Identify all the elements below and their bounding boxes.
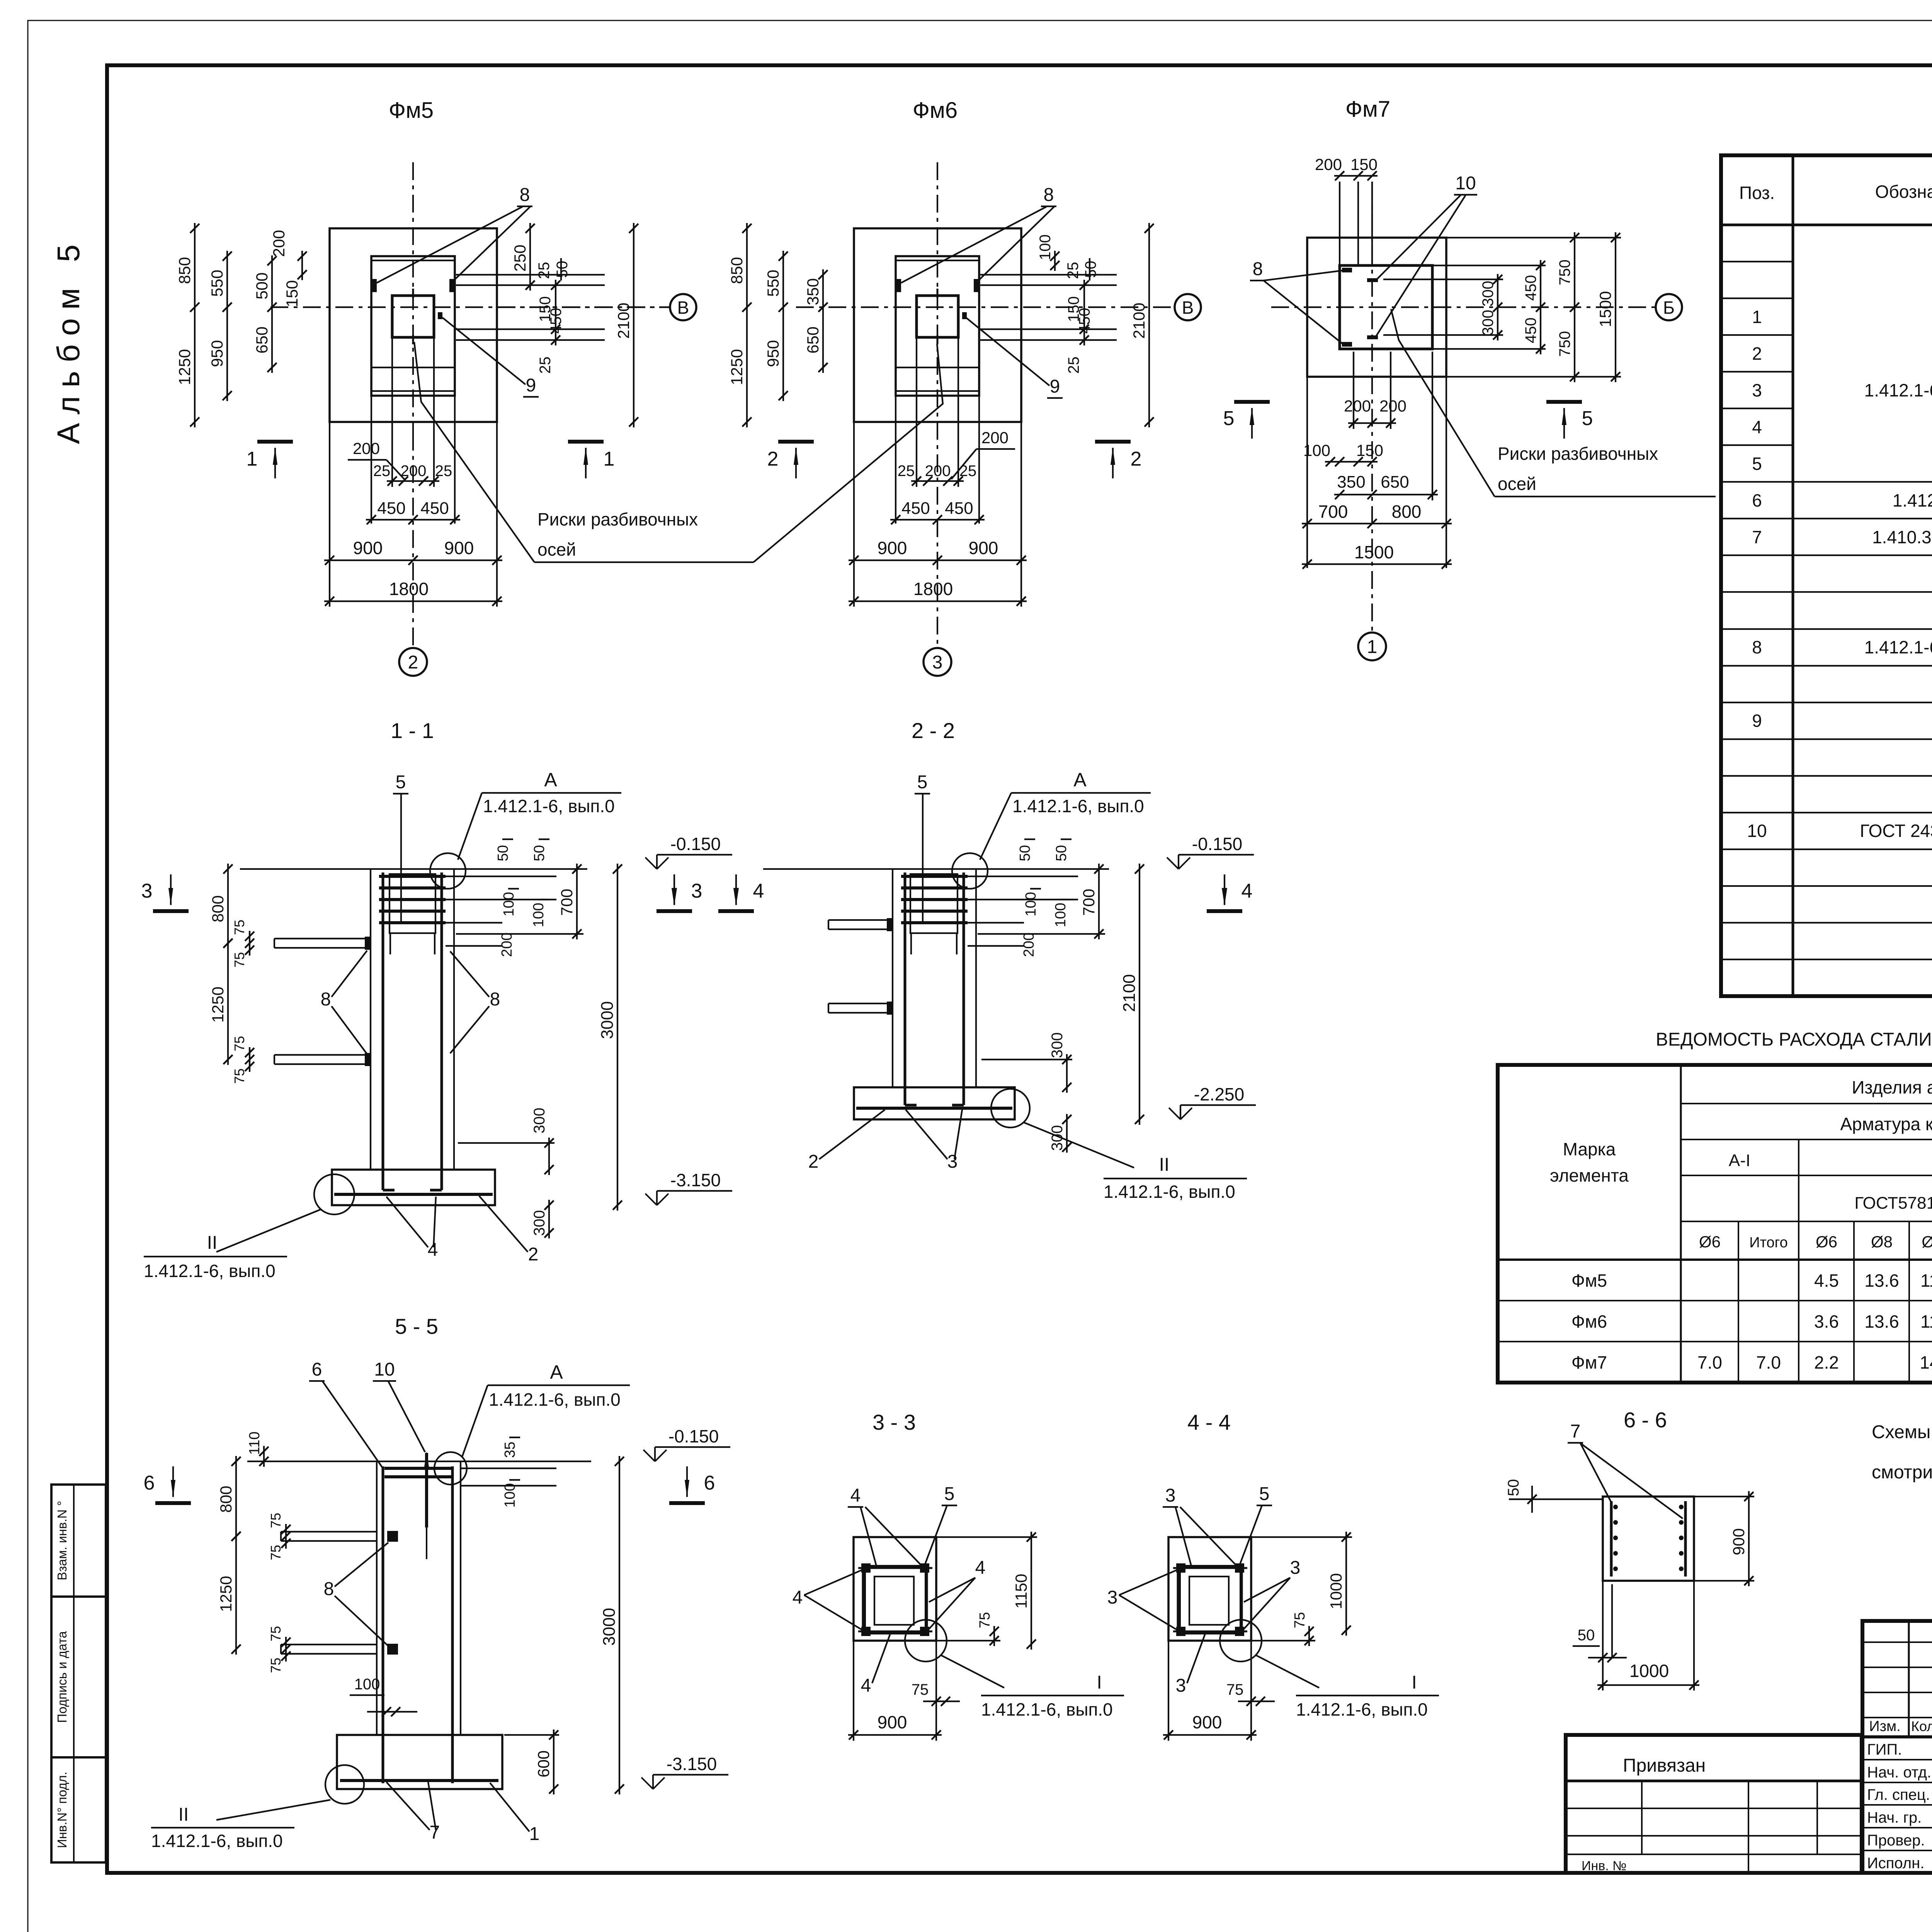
section 2-2 level -2.250	[1180, 1105, 1181, 1119]
svg-text:25: 25	[435, 463, 452, 480]
svg-text:Риски разбивочных: Риски разбивочных	[537, 509, 698, 529]
svg-text:600: 600	[534, 1750, 553, 1777]
plan Fm7 right dims 450/450	[1540, 260, 1541, 354]
svg-text:4: 4	[975, 1558, 986, 1578]
svg-text:4: 4	[861, 1675, 871, 1696]
svg-text:7.0: 7.0	[1697, 1352, 1722, 1372]
svg-text:1.412.1-6, вып.0: 1.412.1-6, вып.0	[981, 1699, 1113, 1719]
svg-text:8: 8	[321, 989, 331, 1010]
svg-text:5: 5	[944, 1484, 955, 1504]
svg-text:А-I: А-I	[1729, 1151, 1750, 1170]
section 6-6 rebar right	[1684, 1501, 1687, 1577]
plan Fm7 top dims 200 150	[1334, 175, 1378, 177]
svg-text:75: 75	[268, 1658, 284, 1673]
plan Fm6 dim 350/650	[822, 269, 824, 373]
svg-text:II: II	[179, 1804, 189, 1825]
plan Fm6 angle detail 9	[962, 312, 967, 319]
svg-text:2100: 2100	[614, 303, 633, 338]
svg-text:Ø6: Ø6	[1816, 1233, 1837, 1251]
svg-text:1.412.1-6, вып.0: 1.412.1-6, вып.0	[1296, 1699, 1428, 1719]
section 2-2 dim 300 upper	[1066, 1054, 1068, 1093]
section 1-1 dim 3000	[617, 864, 618, 1211]
svg-text:25: 25	[537, 357, 554, 374]
svg-text:Б: Б	[1663, 298, 1675, 318]
svg-text:700: 700	[1318, 502, 1348, 522]
plan Fm6 pedestal	[896, 256, 979, 396]
svg-text:8: 8	[520, 185, 530, 205]
plan Fm5 dim 200/150 top-left	[301, 251, 303, 280]
plan Fm6 axis vertical	[937, 162, 938, 648]
svg-text:1: 1	[1367, 637, 1378, 657]
section 1-1 footing	[332, 1170, 495, 1205]
section 3-3 dim 75 right	[993, 1626, 995, 1646]
svg-text:Фм6: Фм6	[1571, 1311, 1607, 1332]
svg-text:7: 7	[1570, 1421, 1581, 1442]
plan Fm7 axis circle B	[1656, 294, 1682, 320]
svg-text:Фм6: Фм6	[913, 98, 957, 123]
svg-text:3: 3	[1290, 1558, 1301, 1578]
plan Fm5 axis vertical	[412, 162, 414, 433]
svg-text:Марка: Марка	[1563, 1139, 1616, 1159]
svg-text:1.412.1-6, вып.0: 1.412.1-6, вып.0	[489, 1389, 621, 1410]
svg-text:1.412.1-6, вып.0: 1.412.1-6, вып.0	[1012, 796, 1144, 816]
svg-text:50: 50	[1017, 845, 1033, 861]
section 1-1 top meshes	[379, 875, 446, 878]
svg-text:1.412.1-6, вып.2: 1.412.1-6, вып.2	[1864, 637, 1932, 657]
svg-text:450: 450	[420, 499, 449, 518]
svg-text:8: 8	[1253, 259, 1263, 279]
section 5-5 dim 800	[235, 1456, 237, 1542]
svg-text:450: 450	[1522, 318, 1539, 344]
svg-text:Схемы нормативных нагрузок: Схемы нормативных нагрузок на фундаменты…	[1872, 1422, 1932, 1442]
svg-text:II: II	[207, 1233, 218, 1253]
section 6-6 dim 900	[1748, 1491, 1750, 1586]
svg-text:450: 450	[1522, 275, 1539, 301]
svg-text:6: 6	[312, 1359, 322, 1380]
svg-text:осей: осей	[537, 539, 576, 560]
section 2-2 footing	[854, 1087, 1015, 1119]
svg-text:75: 75	[231, 952, 247, 968]
section 2-2 column outline	[892, 869, 893, 1087]
svg-text:200: 200	[1021, 932, 1037, 957]
svg-text:100: 100	[354, 1676, 380, 1693]
svg-text:3: 3	[947, 1151, 958, 1172]
svg-text:25: 25	[959, 463, 977, 480]
svg-text:1: 1	[604, 448, 615, 470]
svg-text:650: 650	[804, 327, 822, 354]
steel table horizontals	[1681, 1103, 1932, 1104]
svg-text:элемента: элемента	[1550, 1165, 1629, 1185]
section 5-5 level -0.150	[654, 1447, 656, 1461]
svg-text:800: 800	[1392, 502, 1422, 522]
section 4-4 dim vertical	[1345, 1532, 1347, 1636]
svg-text:Взам. инв.N °: Взам. инв.N °	[55, 1501, 69, 1580]
plan Fm7 bottom dims 350 650	[1334, 494, 1438, 495]
section 1-1 detail circle A	[430, 853, 466, 889]
section 5-5 footing	[337, 1735, 502, 1789]
svg-text:Провер.: Провер.	[1867, 1832, 1925, 1849]
plan Fm6 footing outline	[854, 228, 1021, 422]
plan Fm6 embed flags	[896, 279, 901, 292]
section 1-1 level -0.150	[656, 855, 658, 869]
svg-text:900: 900	[353, 538, 383, 558]
privyazan block	[1566, 1735, 1862, 1873]
svg-text:150: 150	[1356, 441, 1383, 459]
svg-text:350: 350	[1337, 473, 1365, 492]
svg-text:50: 50	[1082, 261, 1099, 278]
svg-text:100: 100	[1037, 235, 1054, 260]
section 2-2 dim 700	[1098, 864, 1100, 939]
svg-text:10: 10	[1455, 173, 1476, 194]
svg-text:2.2: 2.2	[1814, 1352, 1839, 1372]
svg-text:Поз.: Поз.	[1739, 183, 1775, 203]
svg-text:3: 3	[1165, 1485, 1176, 1506]
svg-text:350: 350	[804, 278, 822, 305]
svg-text:300: 300	[1049, 1032, 1066, 1058]
svg-text:осей: осей	[1498, 474, 1536, 494]
svg-text:75: 75	[268, 1626, 284, 1641]
section 3-3 outer outline	[854, 1537, 936, 1641]
svg-text:1: 1	[1752, 307, 1762, 327]
svg-text:1250: 1250	[728, 349, 746, 385]
section 1-1 dims 75 75 upper	[249, 931, 250, 956]
section 2-2 footing mesh	[856, 1107, 1012, 1110]
plan Fm7 bottom dims 200 200	[1348, 422, 1396, 424]
plan Fm7 bolt marks 10	[1367, 278, 1378, 282]
svg-text:3: 3	[1107, 1587, 1118, 1608]
svg-text:25: 25	[1065, 357, 1082, 374]
plan Fm6 dim 100 right	[1054, 251, 1056, 271]
svg-text:5: 5	[396, 772, 406, 793]
svg-text:100: 100	[1053, 903, 1069, 927]
svg-text:Фм5: Фм5	[1571, 1270, 1607, 1291]
section 3-3 bar lines	[858, 1567, 932, 1569]
svg-text:950: 950	[208, 340, 226, 367]
svg-text:1150: 1150	[1012, 1574, 1030, 1609]
svg-text:3.6: 3.6	[1814, 1311, 1839, 1332]
svg-text:8: 8	[1752, 637, 1762, 657]
plan Fm7 axis vertical	[1371, 182, 1373, 634]
svg-text:II: II	[1159, 1155, 1170, 1175]
plan Fm7 column box	[1340, 265, 1432, 349]
plan Fm5 axis circle B	[497, 306, 670, 308]
section 5-5 dim 600	[553, 1730, 554, 1794]
section 4-4 dim 75 right	[1308, 1626, 1310, 1646]
svg-text:2100: 2100	[1130, 303, 1148, 338]
section 1-1 footing mesh	[334, 1193, 493, 1196]
section 4-4 bar lines	[1173, 1567, 1247, 1569]
svg-text:2: 2	[1752, 344, 1762, 364]
svg-text:250: 250	[511, 245, 529, 272]
svg-text:75: 75	[231, 1036, 247, 1051]
plan Fm6 section marks 2-2	[778, 440, 814, 444]
svg-text:800: 800	[209, 895, 227, 922]
svg-text:1 - 1: 1 - 1	[391, 718, 434, 743]
svg-text:Кол.уч: Кол.уч	[1911, 1718, 1932, 1734]
svg-text:800: 800	[217, 1486, 235, 1513]
svg-text:550: 550	[208, 270, 226, 297]
section 5-5 dims 75 75 upper	[285, 1524, 287, 1549]
svg-text:Фм5: Фм5	[389, 98, 434, 123]
svg-text:50: 50	[1053, 845, 1070, 861]
plan Fm6 axis horizontal	[796, 306, 1175, 308]
section 5-5 ground lines	[247, 1461, 377, 1462]
svg-text:6: 6	[704, 1472, 715, 1494]
svg-text:75: 75	[977, 1612, 993, 1628]
svg-text:3000: 3000	[600, 1608, 619, 1646]
svg-text:900: 900	[969, 538, 998, 558]
svg-text:2: 2	[1131, 448, 1142, 470]
svg-text:1000: 1000	[1629, 1661, 1669, 1681]
svg-text:4: 4	[753, 880, 764, 902]
svg-text:1800: 1800	[913, 579, 953, 599]
svg-text:Гл. спец.: Гл. спец.	[1867, 1786, 1930, 1803]
plan Fm6 dims 150/450/25 right	[1083, 280, 1085, 345]
svg-text:5: 5	[917, 772, 928, 793]
svg-text:14.4: 14.4	[1920, 1352, 1932, 1372]
section 3-3 corner bars	[861, 1563, 871, 1573]
svg-text:ГОСТ 24379.1-80: ГОСТ 24379.1-80	[1860, 821, 1932, 841]
svg-text:750: 750	[1556, 331, 1573, 357]
svg-text:Нач. отд.: Нач. отд.	[1867, 1764, 1931, 1781]
svg-text:6 - 6: 6 - 6	[1624, 1408, 1667, 1432]
svg-text:1000: 1000	[1327, 1573, 1345, 1609]
title block staff rows	[1862, 1759, 1932, 1760]
section 2-2 anchor bolts	[904, 872, 906, 1105]
section 1-1 mesh cage	[389, 874, 435, 933]
section 4-4 dim 75 bottom	[1247, 1697, 1256, 1706]
section 1-1 column outline	[370, 869, 371, 1170]
svg-text:75: 75	[268, 1545, 284, 1560]
svg-text:1.412.1-6, вып.0: 1.412.1-6, вып.0	[144, 1261, 276, 1281]
plan Fm6 bottom dims 450 450	[890, 519, 985, 520]
svg-text:Риски разбивочных: Риски разбивочных	[1498, 444, 1658, 464]
svg-text:25: 25	[536, 262, 553, 279]
svg-text:Подпись и дата: Подпись и дата	[55, 1631, 69, 1723]
svg-text:75: 75	[231, 920, 247, 935]
svg-text:5: 5	[1582, 407, 1593, 430]
svg-text:3: 3	[141, 880, 153, 902]
section 6-6 outline	[1603, 1497, 1694, 1581]
left margin stamp boxes	[51, 1485, 106, 1862]
section 2-2 embed channels	[828, 919, 893, 921]
plan Fm7 embed flags	[1342, 268, 1352, 272]
svg-text:450: 450	[548, 308, 565, 334]
svg-text:700: 700	[558, 889, 576, 916]
svg-text:300: 300	[1480, 310, 1497, 336]
svg-text:1500: 1500	[1354, 542, 1394, 562]
svg-text:А: А	[550, 1361, 563, 1383]
svg-text:1.410.3, вып.1: 1.410.3, вып.1	[1872, 527, 1932, 547]
svg-text:700: 700	[1080, 889, 1098, 916]
svg-text:А: А	[544, 769, 557, 791]
svg-text:750: 750	[1556, 260, 1573, 286]
svg-text:1.412.1-6, вып.2: 1.412.1-6, вып.2	[1864, 380, 1932, 400]
svg-text:Изм.: Изм.	[1869, 1718, 1900, 1735]
svg-text:-2.250: -2.250	[1194, 1084, 1244, 1104]
svg-text:75: 75	[231, 1068, 247, 1084]
section 2-2 level -0.150	[1178, 855, 1179, 869]
svg-text:I: I	[1097, 1672, 1102, 1693]
svg-text:Привязан: Привязан	[1623, 1755, 1706, 1776]
svg-text:В: В	[1182, 298, 1194, 318]
section 5-5 side marks 6 6	[155, 1501, 191, 1505]
svg-text:900: 900	[444, 538, 474, 558]
svg-text:3: 3	[932, 652, 943, 673]
svg-text:10: 10	[374, 1359, 395, 1380]
plan Fm7 right dims 750/750	[1574, 232, 1575, 382]
section 4-4 outer outline	[1168, 1537, 1251, 1641]
svg-text:Арматура класса: Арматура класса	[1840, 1114, 1932, 1134]
svg-text:900: 900	[878, 1712, 907, 1732]
svg-text:10: 10	[1747, 821, 1767, 841]
section 3-3 dim 900 bottom	[848, 1734, 942, 1736]
svg-text:Инв.N° подл.: Инв.N° подл.	[55, 1772, 69, 1848]
svg-text:850: 850	[175, 257, 194, 284]
svg-text:100: 100	[531, 903, 547, 927]
svg-text:3: 3	[1752, 380, 1762, 400]
section 5-5 column outline	[376, 1461, 378, 1735]
title block frame	[1862, 1621, 1932, 1873]
svg-text:900: 900	[878, 538, 907, 558]
svg-text:Альбом 5: Альбом 5	[51, 236, 86, 444]
svg-text:550: 550	[764, 270, 782, 297]
svg-text:1800: 1800	[389, 579, 429, 599]
plan Fm6 axis circle 3	[923, 648, 951, 676]
plan Fm5 pedestal	[371, 256, 455, 396]
section 5-5 dims 75 75 lower	[285, 1637, 287, 1662]
svg-text:4: 4	[1242, 880, 1253, 902]
svg-text:200: 200	[981, 429, 1009, 447]
plan Fm6 projection lines	[916, 337, 917, 487]
svg-text:11.9: 11.9	[1920, 1311, 1932, 1332]
svg-text:50: 50	[1578, 1627, 1595, 1644]
plan Fm5 angle detail 9	[438, 312, 442, 319]
svg-text:5 - 5: 5 - 5	[395, 1314, 438, 1338]
svg-text:650: 650	[1381, 473, 1409, 492]
section 5-5 dim 1250	[235, 1531, 237, 1655]
section 5-5 footing mesh	[340, 1779, 498, 1782]
svg-text:1.412.1-6, вып.0: 1.412.1-6, вып.0	[483, 796, 615, 816]
svg-text:50: 50	[495, 845, 511, 861]
section 6-6 rebar left	[1610, 1501, 1613, 1577]
svg-text:ГОСТ5781-82*: ГОСТ5781-82*	[1854, 1194, 1932, 1213]
section 4-4 detail circle I	[1220, 1620, 1262, 1662]
plan Fm5 dim 500/650	[271, 255, 273, 373]
svg-text:Итого: Итого	[1749, 1235, 1788, 1251]
svg-text:300: 300	[531, 1108, 548, 1134]
svg-text:3: 3	[691, 880, 702, 902]
section 5-5 central bolt 10	[425, 1453, 428, 1527]
svg-text:1500: 1500	[1596, 291, 1614, 327]
svg-text:7: 7	[1752, 527, 1762, 547]
section 1-1 dims 75 75 lower	[249, 1047, 250, 1072]
plan Fm6 bottom dims 25 200 25	[911, 480, 964, 482]
plan Fm5 section marks 1-1	[257, 440, 293, 444]
svg-text:50: 50	[1505, 1479, 1522, 1497]
section 1-1 dim 800	[227, 864, 229, 949]
svg-text:Ø8: Ø8	[1871, 1233, 1893, 1251]
svg-text:Ø6: Ø6	[1699, 1233, 1721, 1251]
svg-text:13.6: 13.6	[1864, 1270, 1899, 1291]
section 3-3 stirrup cage	[864, 1566, 926, 1633]
svg-text:100: 100	[502, 1483, 518, 1507]
section 1-1 dim 700	[576, 864, 578, 939]
plan Fm5 dims 150/450/25 right	[555, 280, 556, 345]
plan Fm5 dim 2100	[633, 223, 634, 427]
plan Fm7 footing outline	[1307, 238, 1446, 377]
plan Fm6 bottom dims 900 900	[849, 560, 1027, 561]
svg-text:-0.150: -0.150	[1192, 834, 1242, 854]
svg-text:11.9: 11.9	[1920, 1270, 1932, 1291]
plan Fm5 bottom dim 1800	[324, 600, 502, 602]
svg-text:8: 8	[1044, 185, 1054, 205]
svg-text:25: 25	[1065, 262, 1082, 279]
svg-text:4: 4	[428, 1240, 438, 1260]
plan Fm5 dim 250 right	[529, 223, 531, 291]
section 5-5 dim 3000	[619, 1456, 620, 1794]
svg-text:1: 1	[247, 448, 258, 470]
plan Fm5 axis horizontal	[270, 306, 670, 308]
section 3-3 dim vertical	[1031, 1532, 1032, 1650]
section 5-5 level -3.150	[652, 1775, 654, 1789]
svg-text:8: 8	[490, 989, 500, 1010]
svg-text:450: 450	[945, 499, 973, 518]
svg-text:3 - 3: 3 - 3	[872, 1410, 916, 1434]
svg-text:I: I	[1412, 1672, 1417, 1693]
svg-text:35: 35	[502, 1442, 518, 1458]
svg-text:5: 5	[1752, 454, 1762, 474]
svg-text:300: 300	[1480, 281, 1497, 307]
svg-text:9: 9	[1752, 711, 1762, 731]
svg-text:1: 1	[529, 1824, 540, 1844]
section 1-1 level -3.150	[656, 1191, 658, 1205]
svg-text:450: 450	[1076, 308, 1093, 334]
svg-text:4.5: 4.5	[1814, 1270, 1839, 1291]
section 1-1 anchor bolts	[382, 872, 384, 1190]
plan Fm5 bottom dims 900 900	[324, 560, 502, 561]
svg-text:850: 850	[728, 257, 746, 284]
section 1-1 side marks 3 3	[153, 909, 189, 913]
svg-text:75: 75	[268, 1513, 284, 1528]
plan Fm6 bottom dim 1800	[849, 600, 1027, 602]
svg-text:75: 75	[912, 1681, 929, 1698]
svg-text:2: 2	[767, 448, 779, 470]
svg-text:1.412.1-4: 1.412.1-4	[1893, 490, 1932, 510]
plan Fm6 dim 2100	[1148, 223, 1150, 427]
section 3-3 detail circle I	[905, 1620, 947, 1662]
svg-text:8: 8	[324, 1579, 334, 1599]
svg-text:75: 75	[1226, 1681, 1244, 1698]
svg-text:200: 200	[270, 230, 288, 257]
plan Fm6 axis circle B	[1175, 294, 1201, 320]
plan Fm7 axis horizontal	[1271, 306, 1656, 308]
svg-text:6: 6	[144, 1472, 155, 1494]
section 5-5 embed flag squares	[387, 1531, 398, 1542]
svg-text:500: 500	[253, 272, 271, 299]
section 2-2 dim 300 lower	[1066, 1114, 1068, 1153]
plan Fm5 projection lines right	[456, 274, 605, 276]
svg-text:3: 3	[1176, 1675, 1186, 1696]
section 5-5 top meshes	[384, 1467, 453, 1470]
section 4-4 stirrup cage	[1179, 1566, 1241, 1633]
svg-text:4 - 4: 4 - 4	[1187, 1410, 1231, 1434]
svg-text:50: 50	[531, 845, 548, 861]
section 4-4 corner bars	[1176, 1563, 1185, 1573]
section 4-4 dim 900 bottom	[1163, 1734, 1257, 1736]
svg-text:5: 5	[1259, 1484, 1270, 1504]
svg-text:Исполн.: Исполн.	[1867, 1855, 1924, 1872]
